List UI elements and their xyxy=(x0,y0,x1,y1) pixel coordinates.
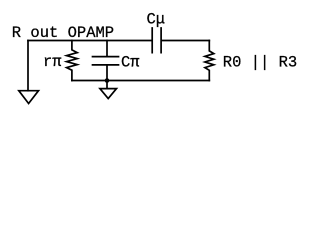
junction dot xyxy=(105,78,110,83)
resistor rπ xyxy=(67,41,78,81)
capacitor Cπ leads xyxy=(106,41,108,89)
wire left vertical drop to ground xyxy=(27,41,29,91)
capacitor Cπ plates xyxy=(93,57,119,65)
wire top rail left segment (node R out OPAMP) xyxy=(28,40,151,42)
svg-text:Cμ: Cμ xyxy=(147,10,166,28)
svg-text:R out OPAMP: R out OPAMP xyxy=(12,24,114,42)
ground middle xyxy=(100,89,117,99)
capacitor Cμ plates xyxy=(152,28,161,53)
resistor R0 || R3 xyxy=(205,41,214,81)
ground left xyxy=(19,91,39,104)
wire bottom rail xyxy=(72,80,209,82)
svg-text:Cπ: Cπ xyxy=(121,54,140,72)
svg-text:rπ: rπ xyxy=(43,53,62,71)
svg-text:R0 || R3: R0 || R3 xyxy=(223,54,297,72)
wire top rail right segment xyxy=(162,40,209,42)
